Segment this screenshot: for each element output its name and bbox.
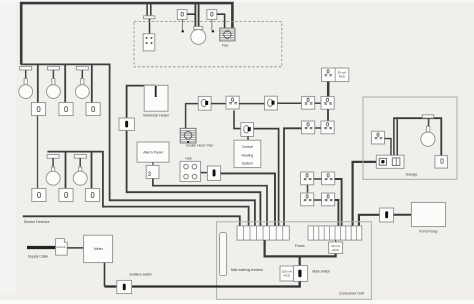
fused connection unit hood <box>198 96 211 110</box>
wire: busbar <box>265 240 336 256</box>
wire: switch to pendant <box>187 13 195 15</box>
svg-text:Cut-out: Cut-out <box>56 245 65 249</box>
socket ring A <box>301 172 314 185</box>
socket ring C <box>301 193 314 206</box>
fused connection 3A <box>146 165 159 178</box>
supply cable <box>27 246 56 249</box>
wire: socket to boiler FCU <box>234 110 241 128</box>
svg-text:RCD: RCD <box>284 274 290 278</box>
wire: s4 to s3 <box>315 127 321 129</box>
immersion heater <box>144 85 168 111</box>
socket s4 <box>321 121 334 134</box>
wire: lamp stem 4 <box>52 158 54 167</box>
fuse bank 1 <box>237 226 289 240</box>
svg-text:Consumer Unit: Consumer Unit <box>339 292 365 296</box>
wire: spur to socket s1 <box>277 102 301 104</box>
socket s3 <box>302 121 315 134</box>
RCD protected socket <box>322 68 349 82</box>
wire: fan switch to fan <box>217 14 225 28</box>
garage consumer unit <box>376 155 404 168</box>
isolator switch immersion <box>119 118 134 130</box>
svg-text:Garage: Garage <box>406 172 418 176</box>
socket s2 <box>321 96 334 109</box>
pond pump switch <box>380 208 394 222</box>
switch upstairs 1 <box>31 103 45 116</box>
lamp 3 <box>75 79 89 99</box>
socket s1 <box>302 96 315 109</box>
svg-text:RCD: RCD <box>339 75 345 79</box>
bathroom dashed zone <box>134 22 282 67</box>
wire: top lighting bus <box>21 3 232 64</box>
svg-text:Heating: Heating <box>242 153 254 157</box>
svg-text:Central: Central <box>242 145 253 149</box>
cut-out <box>56 239 68 256</box>
main earthing terminal <box>220 233 227 276</box>
garage light switch <box>435 156 448 169</box>
RCD 100mA <box>280 266 294 281</box>
wire: socket to spur <box>239 103 264 105</box>
wire: shaver twin drop <box>147 3 151 16</box>
wire: alarm circuit to consumer unit <box>153 179 267 226</box>
alarm panel <box>137 142 169 162</box>
garage lamp <box>421 126 435 146</box>
wire: pond pump circuit <box>359 215 380 226</box>
svg-text:Fuses: Fuses <box>295 244 305 248</box>
wire: garage lighting twin riser <box>394 118 397 155</box>
pull switch fan <box>207 10 217 33</box>
wire: s2 to s4 <box>327 109 329 121</box>
wire: hob to cooker switch <box>201 172 208 174</box>
svg-text:Supply Cable: Supply Cable <box>28 254 48 258</box>
svg-text:Hob: Hob <box>185 156 191 160</box>
meter <box>84 235 113 262</box>
garage ceiling rose <box>422 115 433 118</box>
wire: cooker circuit to consumer unit <box>221 173 275 226</box>
wire: smoke detector circuit <box>23 216 240 226</box>
wire: garage socket spur <box>384 139 391 156</box>
extractor fan <box>220 28 235 41</box>
pond pump <box>411 202 445 226</box>
ceiling rose 4 <box>47 155 59 159</box>
wire: C to D <box>314 199 322 201</box>
wire: downstairs switch drop 3 <box>91 152 93 189</box>
svg-text:Meter: Meter <box>94 247 104 251</box>
wire: busbar to main switch <box>299 256 301 266</box>
wire: isolator feed to main switch <box>105 281 300 286</box>
svg-text:Cooker Hood / Fan: Cooker Hood / Fan <box>186 143 213 147</box>
socket ring B <box>322 172 335 185</box>
lamp 1 <box>19 79 33 99</box>
wire: lamp stem 3 <box>81 70 83 79</box>
garage enclosure <box>363 97 457 179</box>
ceiling rose 1 <box>20 66 32 70</box>
wire: downstairs switch drop 2 <box>65 152 67 189</box>
isolator switch <box>117 280 132 293</box>
svg-text:Main switch: Main switch <box>312 269 330 273</box>
wire: garage lighting ceiling run <box>393 118 441 155</box>
svg-text:RCD: RCD <box>332 248 338 252</box>
ceiling rose 3 <box>76 66 88 70</box>
wire: two-way strapper <box>37 116 39 189</box>
svg-text:Main earthing terminal: Main earthing terminal <box>231 268 263 272</box>
fuse bank 2 <box>308 226 362 240</box>
wire: FCU to kitchen socket <box>211 103 226 105</box>
wire: garage lamp stem <box>428 118 430 126</box>
wire: cutout to meter <box>67 247 83 249</box>
svg-text:Immersion Heater: Immersion Heater <box>143 114 170 118</box>
lamp 5 <box>73 167 87 185</box>
wire: shaver stem <box>149 19 151 34</box>
fused spur kitchen <box>265 96 278 110</box>
wire: upstairs lighting circuit to consumer unit <box>21 64 255 226</box>
label boiler <box>242 145 254 165</box>
svg-text:Pond Pump: Pond Pump <box>419 230 437 234</box>
junction box bathroom <box>144 16 155 19</box>
wire: downstairs lighting circuit to consumer unit <box>47 152 248 226</box>
shaver socket <box>143 34 155 51</box>
hob <box>180 161 201 181</box>
svg-text:System: System <box>242 162 253 166</box>
switch downstairs 2 <box>59 189 73 202</box>
wire: lamp stem 2 <box>52 70 54 79</box>
lamp 2 <box>47 79 61 99</box>
wire: bathroom pendant twin drop <box>195 3 198 27</box>
wire: hood to FCU <box>186 104 199 129</box>
wire: D to consumer unit <box>335 200 339 226</box>
wire: A to B <box>314 178 322 180</box>
bathroom lamp <box>191 27 206 45</box>
svg-text:Alarm Panel: Alarm Panel <box>143 151 163 155</box>
fused connection unit boiler <box>241 123 254 137</box>
cooker hood fan <box>180 128 196 143</box>
wire: B to consumer unit <box>335 179 342 226</box>
switch upstairs 2 <box>59 103 73 116</box>
wire: upstairs switch drop 3 <box>91 64 93 102</box>
wire: FCU to boiler <box>247 136 249 143</box>
wire: immersion heater circuit <box>127 86 261 226</box>
wire: RCD stub <box>335 240 337 242</box>
switch downstairs 3 <box>85 189 99 202</box>
wire: switch to pond pump <box>394 214 412 216</box>
svg-text:Smoke Detector: Smoke Detector <box>24 220 51 224</box>
consumer unit <box>217 222 372 299</box>
wire: RCD socket drop <box>327 82 330 97</box>
pull switch bathroom light <box>177 10 187 33</box>
RCD 30mA <box>329 242 343 253</box>
wire: upstairs switch drop 1 <box>37 64 39 102</box>
wire: panel to fuse <box>152 162 154 165</box>
wire: boiler circuit to consumer unit <box>254 129 279 226</box>
main switch <box>294 266 308 282</box>
garage socket <box>371 131 384 144</box>
socket ring D <box>322 193 335 206</box>
ceiling rose 5 <box>74 155 86 159</box>
wire: upstairs switch drop 2 <box>64 64 66 102</box>
switch downstairs 1 <box>32 189 46 202</box>
wire: garage supply <box>353 162 377 226</box>
wire: s1 to s2 <box>315 102 321 104</box>
wire: lamp stem 5 <box>79 158 81 167</box>
cooker switch <box>207 166 220 180</box>
wire: kitchen ring return to consumer unit <box>284 128 302 226</box>
svg-text:Isolation switch: Isolation switch <box>130 273 153 277</box>
ceiling rose 2 <box>47 66 59 70</box>
central heating boiler <box>234 140 261 167</box>
wire: A to C <box>307 185 309 193</box>
kitchen double socket <box>226 96 239 109</box>
svg-text:Fan.: Fan. <box>222 44 229 48</box>
wire: meter to isolator <box>104 263 106 287</box>
lamp 4 <box>46 167 60 185</box>
switch upstairs 3 <box>86 103 100 116</box>
wire: lamp stem 1 <box>25 70 27 79</box>
